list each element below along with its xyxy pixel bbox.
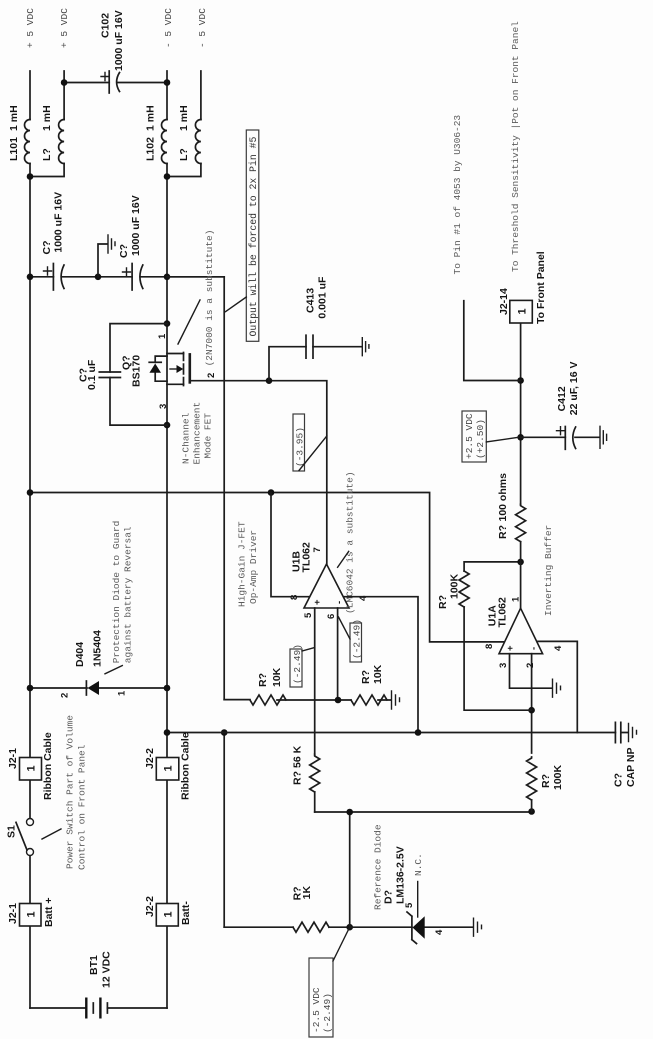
wire mid ground stub bbox=[98, 244, 108, 277]
connector J2-2 Ribbon bbox=[144, 732, 192, 800]
svg-text:2: 2 bbox=[525, 663, 536, 668]
wire -5V rail B (y=201) bbox=[167, 71, 201, 177]
svg-text:8: 8 bbox=[289, 595, 300, 600]
svg-text:6: 6 bbox=[326, 614, 337, 619]
junction feedback at pin2 bbox=[528, 707, 535, 714]
svg-text:TL062: TL062 bbox=[301, 542, 313, 573]
transistor Q? BS170 FET bbox=[121, 333, 218, 409]
svg-text:S1: S1 bbox=[6, 825, 18, 838]
svg-text:1: 1 bbox=[163, 765, 175, 771]
svg-text:2: 2 bbox=[206, 373, 217, 378]
svg-text:7: 7 bbox=[312, 547, 323, 552]
junction rail B to rail A bbox=[27, 173, 34, 180]
svg-text:C?: C? bbox=[613, 773, 625, 787]
net label + 5 VDC (rail B) bbox=[59, 8, 70, 48]
svg-text:Enhancement: Enhancement bbox=[192, 402, 203, 465]
capacitor C413 bbox=[305, 276, 329, 358]
capacitor C? 1000uF (upper) bbox=[41, 192, 65, 290]
junction caps branch at ground stub bbox=[95, 274, 102, 281]
svg-text:56 K: 56 K bbox=[292, 745, 304, 768]
wire gate lead to U1B output bbox=[190, 381, 327, 564]
note box Output will be forced to 2x Pin #5 bbox=[226, 130, 259, 341]
wire U1A output (y=520.6) bbox=[520, 323, 522, 608]
wire U1A pin4 to lower bus bbox=[537, 641, 577, 732]
wire +5V rail B (y=64) bbox=[30, 71, 64, 177]
measurement box (-2.49) pin5 bbox=[290, 644, 315, 687]
net label - 5 VDC (rail B) bbox=[197, 8, 208, 48]
inductor L? (rail B +5) bbox=[41, 105, 64, 163]
svg-text:R?: R? bbox=[437, 595, 449, 609]
inductor L? (rail B -5) bbox=[178, 105, 201, 163]
label High-Gain J-FET Op-Amp Driver bbox=[237, 521, 260, 607]
svg-text:Power Switch Part of Volume: Power Switch Part of Volume bbox=[65, 715, 76, 869]
wire U1A pin3 to ground bbox=[510, 654, 553, 689]
diode D? LM136-2.5V bbox=[350, 824, 473, 943]
junction C412 branch bbox=[517, 434, 524, 441]
junction divider mid at pin6 bbox=[335, 697, 342, 704]
svg-text:C102: C102 bbox=[100, 13, 112, 38]
svg-text:C413: C413 bbox=[305, 288, 317, 313]
resistor R? 10K (lower) bbox=[351, 664, 387, 705]
svg-text:BS170: BS170 bbox=[131, 355, 143, 387]
connector J2-1 Batt+ bbox=[7, 898, 55, 927]
svg-text:5: 5 bbox=[404, 902, 415, 908]
svg-text:L102: L102 bbox=[145, 137, 157, 161]
svg-text:100K: 100K bbox=[552, 764, 564, 790]
svg-text:+: + bbox=[505, 645, 516, 651]
resistor R? 56K bbox=[292, 745, 320, 792]
junction output node at lower bus bbox=[221, 729, 228, 736]
svg-text:1N5404: 1N5404 bbox=[92, 630, 104, 667]
svg-text:10K: 10K bbox=[271, 667, 283, 687]
svg-text:3: 3 bbox=[158, 404, 169, 409]
wire gate-bias loop bbox=[110, 324, 167, 426]
svg-text:High-Gain J-FET: High-Gain J-FET bbox=[237, 521, 248, 607]
wire output node (y=224.2) bbox=[167, 277, 224, 700]
junction C102 top bbox=[61, 79, 68, 86]
svg-text:J2-1: J2-1 bbox=[7, 903, 19, 924]
svg-text:R?: R? bbox=[292, 771, 304, 785]
svg-text:R?: R? bbox=[360, 670, 372, 684]
resistor R? 100K (input) bbox=[527, 757, 564, 800]
connector J2-14 bbox=[498, 251, 547, 324]
wire branch to pin1 of 4053 bbox=[464, 301, 521, 381]
svg-text:0.1 uF: 0.1 uF bbox=[86, 359, 98, 390]
svg-text:1: 1 bbox=[157, 333, 168, 339]
svg-text:8: 8 bbox=[484, 644, 495, 649]
net label - 5 VDC (rail A) bbox=[163, 8, 174, 48]
svg-text:C?: C? bbox=[118, 244, 130, 258]
svg-text:- 5 VDC: - 5 VDC bbox=[163, 8, 174, 48]
svg-text:LM136-2.5V: LM136-2.5V bbox=[395, 846, 407, 904]
svg-text:N.C.: N.C. bbox=[413, 853, 424, 876]
wire reference riser (x=227) bbox=[315, 811, 532, 813]
junction D404 at +5 rail bbox=[27, 685, 34, 692]
junction C102 bottom bbox=[164, 79, 171, 86]
svg-text:C412: C412 bbox=[556, 386, 568, 411]
svg-text:-: - bbox=[334, 601, 345, 604]
label Inverting Buffer bbox=[543, 525, 554, 616]
label To Threshold Sensitivity Pot bbox=[510, 21, 521, 272]
junction D404 at -5 rail bbox=[164, 685, 171, 692]
capacitor C412 bbox=[556, 361, 580, 449]
inductor L102 bbox=[145, 105, 168, 163]
wire reference branch (y=349.7) bbox=[349, 812, 351, 927]
wire decoupling caps branch (x=762.2) bbox=[30, 276, 224, 278]
measurement box (-2.49) pin6 bbox=[339, 617, 363, 662]
svg-text:Ribbon Cable: Ribbon Cable bbox=[42, 732, 54, 800]
svg-text:1: 1 bbox=[516, 308, 528, 314]
svg-text:Batt-: Batt- bbox=[180, 901, 192, 925]
wire U1A pin2 input (y=531.6) bbox=[531, 654, 533, 812]
svg-text:To Pin #1 of 4053 by U306-23: To Pin #1 of 4053 by U306-23 bbox=[452, 115, 463, 275]
wire U1B pin8 riser bbox=[271, 493, 309, 597]
svg-text:(LMC6042 is a substitute): (LMC6042 is a substitute) bbox=[345, 471, 356, 614]
svg-text:1: 1 bbox=[117, 690, 128, 696]
svg-text:1 mH: 1 mH bbox=[41, 105, 53, 131]
wire upper bus +5 to opamp supplies (x=546.5) bbox=[30, 493, 505, 642]
svg-text:4: 4 bbox=[434, 929, 445, 935]
label Protection Diode note bbox=[105, 521, 134, 674]
wire 10K divider branch (x=339) bbox=[224, 699, 391, 701]
junction caps branch at +5 rail bbox=[27, 274, 34, 281]
junction feedback at output bbox=[517, 559, 524, 566]
svg-text:R?: R? bbox=[257, 673, 269, 687]
wire 1K branch (x=111.8) bbox=[224, 926, 350, 928]
junction lower bus at -5 rail bbox=[164, 729, 171, 736]
wire C412 branch bbox=[521, 436, 600, 438]
svg-text:J2-14: J2-14 bbox=[498, 288, 510, 315]
svg-text:Output will be forced to 2x Pi: Output will be forced to 2x Pin #5 bbox=[248, 136, 259, 336]
junction ref riser at ref branch bbox=[346, 809, 353, 816]
wire feedback loop bbox=[464, 562, 531, 710]
capacitor C? 1000uF (lower) bbox=[118, 195, 143, 290]
svg-text:1000 uF 16V: 1000 uF 16V bbox=[53, 192, 65, 253]
junction -2.5V reference node bbox=[346, 924, 353, 931]
wire lower bus -5 net (x=306.5) bbox=[167, 732, 628, 734]
junction ref riser at U1A input bbox=[528, 808, 535, 815]
wire bus to 1K branch (y=224.2) bbox=[223, 733, 225, 928]
svg-text:- 5 VDC: - 5 VDC bbox=[197, 8, 208, 48]
svg-text:N-Channel: N-Channel bbox=[181, 412, 192, 464]
svg-text:Op-Amp Driver: Op-Amp Driver bbox=[248, 530, 259, 604]
svg-text:1 mH: 1 mH bbox=[8, 105, 20, 131]
ground (10K divider) bbox=[392, 691, 400, 709]
svg-text:(-3.95): (-3.95) bbox=[294, 427, 305, 467]
capacitor C102 bbox=[100, 10, 126, 93]
measurement box +2.5 VDC bbox=[462, 411, 519, 462]
resistor R? 1K bbox=[291, 885, 329, 932]
svg-text:1 mH: 1 mH bbox=[178, 105, 190, 131]
svg-text:D?: D? bbox=[383, 890, 395, 904]
svg-text:+ 5 VDC: + 5 VDC bbox=[59, 8, 70, 48]
junction upper bus at U1B pin8 bbox=[268, 489, 275, 496]
svg-text:J2-2: J2-2 bbox=[144, 748, 156, 769]
svg-text:-: - bbox=[529, 647, 540, 650]
label N-Channel Enhancement Mode FET bbox=[181, 402, 214, 465]
svg-text:against battery Reversal: against battery Reversal bbox=[123, 526, 134, 663]
junction to-4053 branch bbox=[517, 377, 524, 384]
ground (C412) bbox=[600, 426, 607, 448]
label To Pin #1 of 4053 by U306-23 bbox=[452, 115, 463, 275]
svg-text:(-2.49): (-2.49) bbox=[352, 619, 363, 659]
svg-text:22 uF, 16 V: 22 uF, 16 V bbox=[568, 361, 580, 415]
svg-text:+2.5 VDC: +2.5 VDC bbox=[464, 413, 475, 459]
svg-text:To Threshold Sensitivity |Pot: To Threshold Sensitivity |Pot on Front P… bbox=[510, 21, 521, 272]
wire U1B pin4 to lower bus bbox=[344, 597, 418, 733]
resistor R? 10K (upper) bbox=[250, 667, 286, 705]
op-amp U1A bbox=[484, 596, 564, 668]
svg-text:Mode FET: Mode FET bbox=[203, 413, 214, 459]
svg-text:R?: R? bbox=[540, 774, 552, 788]
svg-text:Batt +: Batt + bbox=[43, 898, 55, 927]
svg-text:5: 5 bbox=[303, 612, 314, 618]
wire -5V rail A (y=167) bbox=[166, 71, 168, 1008]
svg-text:1: 1 bbox=[25, 911, 37, 917]
svg-text:L?: L? bbox=[178, 148, 190, 161]
ground (U1A pin3) bbox=[553, 679, 561, 697]
connector J2-2 Batt- bbox=[144, 896, 192, 926]
ground (CAP NP) bbox=[629, 724, 637, 742]
junction rail B to rail A (-5) bbox=[164, 173, 171, 180]
label Power Switch note bbox=[42, 715, 88, 870]
svg-text:(+2.50): (+2.50) bbox=[475, 419, 486, 459]
svg-text:Inverting Buffer: Inverting Buffer bbox=[543, 525, 554, 616]
svg-text:+: + bbox=[312, 599, 323, 605]
resistor R? 100K (feedback) bbox=[437, 571, 469, 609]
connector J2-1 Ribbon bbox=[7, 732, 54, 800]
svg-text:(-2.49): (-2.49) bbox=[322, 993, 333, 1033]
svg-text:-2.5 VDC: -2.5 VDC bbox=[311, 987, 322, 1033]
svg-text:2: 2 bbox=[60, 693, 71, 698]
svg-text:100K: 100K bbox=[449, 573, 461, 599]
junction upper bus at +5 rail bbox=[27, 489, 34, 496]
diode D404 bbox=[30, 630, 167, 698]
svg-text:100 ohms: 100 ohms bbox=[497, 473, 509, 522]
svg-text:3: 3 bbox=[498, 663, 509, 668]
svg-text:Protection Diode to Guard: Protection Diode to Guard bbox=[111, 521, 122, 664]
capacitor C? CAP NP bbox=[613, 722, 638, 787]
svg-text:Ribbon Cable: Ribbon Cable bbox=[180, 732, 192, 800]
wire U1B pin5 input (y=314.7) bbox=[314, 608, 316, 812]
svg-text:+ 5 VDC: + 5 VDC bbox=[25, 8, 36, 48]
svg-text:1: 1 bbox=[162, 911, 174, 917]
resistor R? 100 ohms bbox=[497, 473, 526, 542]
capacitor C? 0.1uF bbox=[78, 359, 121, 390]
junction lower bus at U1B pin4 bbox=[415, 729, 422, 736]
svg-text:1000 uF 16V: 1000 uF 16V bbox=[130, 195, 142, 256]
net label + 5 VDC (rail A) bbox=[25, 8, 36, 48]
svg-text:Control on Front Panel: Control on Front Panel bbox=[77, 744, 88, 870]
junction FET loop right bbox=[164, 320, 171, 327]
ground (C413) bbox=[362, 338, 369, 356]
svg-text:(-2.49): (-2.49) bbox=[292, 644, 303, 684]
svg-text:C?: C? bbox=[41, 241, 53, 255]
svg-text:10K: 10K bbox=[372, 664, 384, 684]
wire C413 branch bbox=[269, 347, 362, 381]
op-amp U1B bbox=[289, 542, 369, 619]
svg-text:1K: 1K bbox=[301, 885, 313, 899]
svg-text:TL062: TL062 bbox=[497, 597, 509, 628]
svg-text:CAP NP: CAP NP bbox=[625, 748, 637, 787]
svg-text:L101: L101 bbox=[8, 137, 20, 161]
battery BT1 bbox=[30, 951, 167, 1019]
ground (LM136) bbox=[474, 918, 482, 936]
junction gate wire at C413 branch bbox=[266, 377, 273, 384]
svg-text:1000 uF 16V: 1000 uF 16V bbox=[113, 10, 125, 71]
junction caps branch at -5 rail bbox=[164, 274, 171, 281]
svg-text:D404: D404 bbox=[74, 642, 86, 667]
inductor L101 bbox=[8, 105, 30, 163]
svg-text:1: 1 bbox=[26, 765, 38, 771]
wire C102 link (x=956.5) bbox=[64, 82, 167, 84]
label LMC6042 is a substitute bbox=[338, 471, 356, 614]
svg-text:4: 4 bbox=[553, 645, 564, 651]
svg-text:(2N7000 is a substitute): (2N7000 is a substitute) bbox=[204, 230, 215, 367]
wire U1B pin6 input (y=337.6) bbox=[337, 608, 339, 700]
junction FET loop left bbox=[164, 422, 171, 429]
svg-text:To Front Panel: To Front Panel bbox=[535, 251, 547, 324]
svg-text:1 mH: 1 mH bbox=[145, 105, 157, 131]
svg-text:J2-1: J2-1 bbox=[7, 748, 19, 769]
measurement box -2.5 VDC bbox=[309, 929, 349, 1038]
svg-text:J2-2: J2-2 bbox=[144, 896, 156, 917]
measurement box (-3.95) bbox=[293, 414, 327, 471]
svg-text:L?: L? bbox=[41, 148, 53, 161]
svg-text:BT1: BT1 bbox=[88, 955, 100, 975]
wire +5V rail A (y=30) bbox=[29, 71, 31, 1008]
svg-text:0.001 uF: 0.001 uF bbox=[317, 276, 329, 319]
ground (decoupling mid) bbox=[108, 235, 115, 253]
switch S1 bbox=[6, 819, 34, 856]
svg-text:12 VDC: 12 VDC bbox=[101, 951, 113, 988]
label 2N7000 is a substitute bbox=[178, 230, 215, 367]
svg-text:R?: R? bbox=[497, 525, 509, 539]
